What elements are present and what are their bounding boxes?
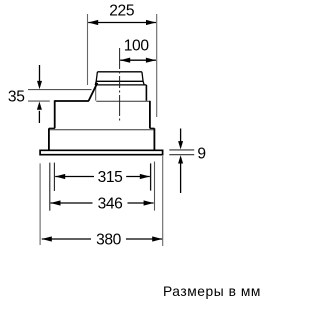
dim 380 arrows: [42, 236, 52, 241]
bottom ext lines right: [150, 163, 152, 190]
dim 380 line: [42, 238, 91, 240]
dim 100 arrow right: [146, 58, 156, 63]
dim 225 ext left: [87, 14, 89, 85]
dim 100 line: [120, 59, 156, 61]
svg-text:35: 35: [8, 89, 25, 106]
dim 346 arrows: [51, 200, 61, 205]
lower body left edge: [48, 128, 50, 150]
duct collar top: [95, 72, 146, 85]
step left: [49, 127, 55, 129]
svg-text:315: 315: [98, 169, 124, 186]
lower body seam: [49, 129, 154, 131]
centerline: [119, 48, 121, 121]
svg-text:Размеры в мм: Размеры в мм: [163, 284, 261, 299]
dim 225 ext right: [156, 14, 158, 117]
mid body left edge: [54, 100, 56, 128]
dim 225 line: [88, 22, 156, 24]
dim 225 arrow right: [146, 20, 156, 25]
svg-text:346: 346: [98, 196, 123, 213]
dim 315 line: [55, 176, 94, 178]
flange: [40, 150, 163, 154]
dim 35 ext lower: [28, 100, 50, 102]
dim 100 arrow left: [120, 58, 130, 63]
body top seam behind slope: [96, 100, 150, 102]
dim 315 arrows: [55, 174, 65, 179]
dim 35 up arrow: [38, 111, 40, 123]
mid body right edge: [149, 101, 151, 129]
front slope diagonal: [89, 83, 98, 101]
bottom ext lines left: [53, 163, 55, 191]
mid body top left: [55, 100, 89, 102]
dim 35 ext upper: [28, 89, 92, 91]
svg-text:225: 225: [109, 2, 135, 19]
dim 225 arrow left: [88, 20, 98, 25]
plinth right edge: [145, 85, 147, 101]
svg-text:9: 9: [197, 146, 206, 163]
svg-text:380: 380: [96, 232, 122, 249]
svg-text:100: 100: [124, 37, 150, 54]
step right: [150, 127, 155, 129]
lower body right edge: [153, 128, 155, 150]
dim 9 down arrow: [180, 129, 182, 142]
dim 35 down arrow: [39, 65, 41, 82]
dim 9 up arrow: [180, 163, 182, 193]
dim 9 ref lines: [169, 149, 194, 151]
dim 346 line: [51, 202, 93, 204]
collar hidden left edge: [95, 86, 97, 101]
